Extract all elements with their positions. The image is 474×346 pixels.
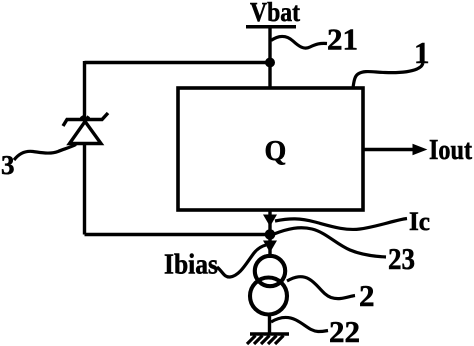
svg-text:Iout: Iout (429, 134, 472, 166)
leader squiggle to 23 (274, 228, 386, 257)
svg-text:Vbat: Vbat (250, 0, 301, 27)
svg-text:2: 2 (359, 278, 375, 313)
svg-text:Ic: Ic (409, 207, 430, 236)
svg-text:1: 1 (414, 35, 430, 70)
leader squiggle to Ic (275, 219, 407, 230)
Iout arrow wire (363, 148, 415, 151)
current source I (two overlapping circles) (255, 256, 285, 286)
node junction dot (top) (265, 58, 275, 68)
wire: current source to ground (268, 313, 271, 334)
svg-text:22: 22 (329, 314, 360, 346)
wire from Vbat rail down to box (268, 27, 271, 89)
junction dot (bottom) (265, 229, 276, 240)
wire: box bottom stem (268, 210, 271, 258)
leader squiggle to 21 (271, 36, 327, 48)
ground bar (250, 332, 289, 336)
leader squiggle to 3 (14, 145, 76, 161)
svg-text:21: 21 (327, 22, 358, 57)
zener diode triangle (70, 116, 102, 143)
svg-text:23: 23 (388, 241, 415, 276)
svg-text:3: 3 (1, 150, 15, 180)
wire: left vertical below zener (83, 144, 86, 235)
zener diode D (cathode bar with bent ends) (63, 113, 108, 126)
Iout arrowhead (413, 145, 426, 155)
arrowhead Ibias (lower) (263, 241, 277, 253)
wire: bottom horizontal from left branch to lower junction (85, 233, 271, 236)
svg-text:Q: Q (265, 136, 287, 167)
leader squiggle from Ibias to lower arrow (217, 245, 266, 277)
Vbat supply rail bar (246, 25, 296, 29)
wire: top horizontal from left branch to junction (85, 61, 271, 64)
leader squiggle to 22 (271, 317, 328, 331)
arrowhead Ic (upper) (263, 215, 277, 227)
wire: left vertical down to zener (83, 61, 86, 120)
svg-text:Ibias: Ibias (164, 250, 218, 281)
leader squiggle to 2 (287, 277, 355, 299)
leader squiggle to 1 (353, 63, 423, 88)
ground hatch strokes (247, 336, 284, 345)
transistor block Q (178, 88, 363, 210)
